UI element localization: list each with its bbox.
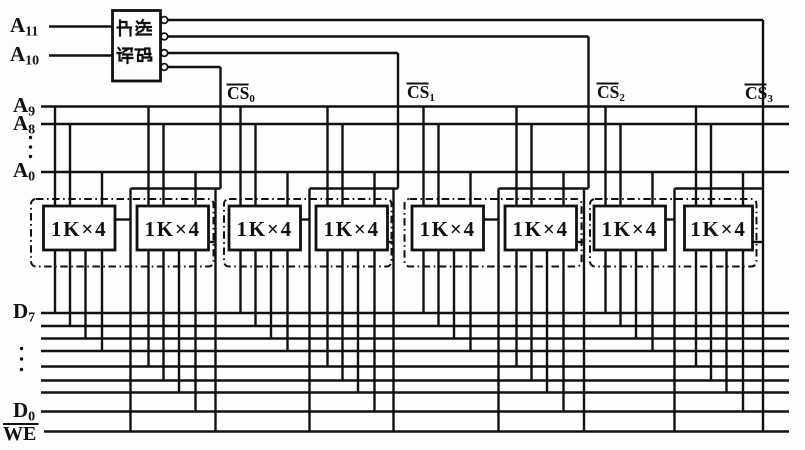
svg-text:1K×4: 1K×4 [512,217,569,241]
svg-text:1K×4: 1K×4 [419,217,476,241]
svg-text:1K×4: 1K×4 [144,217,201,241]
svg-text:1K×4: 1K×4 [601,217,658,241]
svg-text:WE: WE [3,423,36,445]
svg-text:1K×4: 1K×4 [690,217,747,241]
svg-text:1K×4: 1K×4 [323,217,380,241]
svg-text:1K×4: 1K×4 [236,217,293,241]
svg-text:1K×4: 1K×4 [51,217,108,241]
